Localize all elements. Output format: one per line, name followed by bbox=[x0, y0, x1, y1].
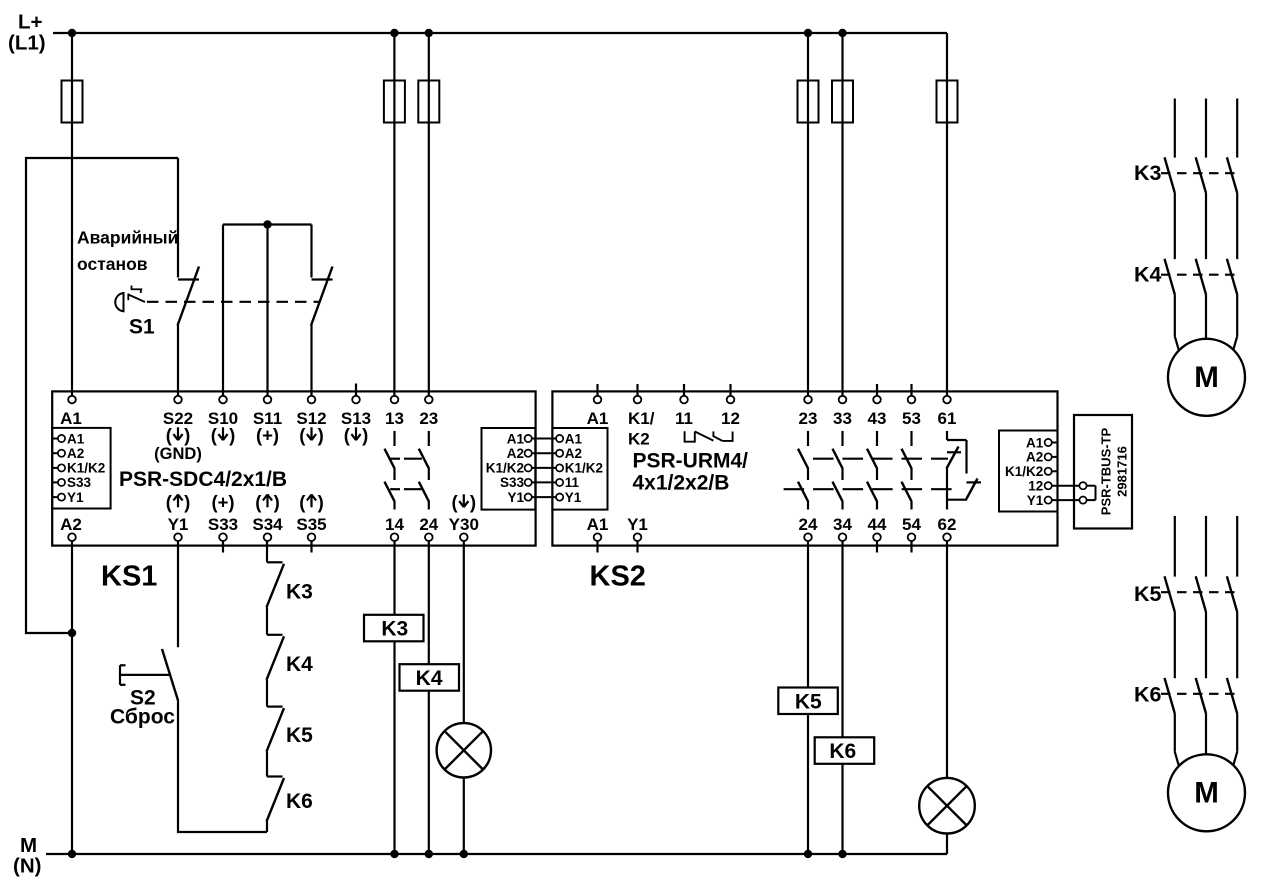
svg-text:44: 44 bbox=[868, 515, 887, 534]
svg-text:A2: A2 bbox=[67, 446, 84, 461]
svg-text:Y1: Y1 bbox=[627, 515, 648, 534]
svg-text:K5: K5 bbox=[1134, 582, 1162, 606]
svg-text:K1/K2: K1/K2 bbox=[1005, 464, 1043, 479]
svg-text:S35: S35 bbox=[296, 515, 326, 534]
svg-text:K5: K5 bbox=[795, 690, 822, 713]
svg-text:(: ( bbox=[166, 425, 173, 446]
svg-text:K3: K3 bbox=[381, 618, 408, 641]
svg-text:KS1: KS1 bbox=[101, 561, 157, 593]
svg-text:): ) bbox=[229, 425, 235, 446]
svg-text:(: ( bbox=[299, 492, 306, 513]
svg-text:(: ( bbox=[452, 492, 459, 513]
svg-text:Y1: Y1 bbox=[1027, 493, 1044, 508]
svg-text:): ) bbox=[470, 492, 476, 513]
svg-text:14: 14 bbox=[385, 515, 404, 534]
svg-text:S33: S33 bbox=[208, 515, 238, 534]
svg-text:PSR-SDC4/2x1/B: PSR-SDC4/2x1/B bbox=[119, 468, 287, 491]
svg-text:(GND): (GND) bbox=[154, 445, 202, 463]
svg-text:K1/K2: K1/K2 bbox=[67, 461, 105, 476]
svg-text:): ) bbox=[184, 425, 190, 446]
svg-text:61: 61 bbox=[938, 409, 957, 428]
svg-text:K1/K2: K1/K2 bbox=[565, 461, 603, 476]
svg-text:): ) bbox=[318, 425, 324, 446]
svg-text:Y1: Y1 bbox=[67, 490, 84, 505]
svg-text:A1: A1 bbox=[1026, 435, 1044, 450]
svg-text:K1/: K1/ bbox=[628, 409, 655, 428]
svg-text:L+: L+ bbox=[18, 11, 43, 34]
svg-text:A1: A1 bbox=[60, 409, 82, 428]
svg-text:A2: A2 bbox=[507, 446, 524, 461]
svg-text:24: 24 bbox=[419, 515, 438, 534]
svg-text:Y30: Y30 bbox=[449, 515, 479, 534]
svg-text:S34: S34 bbox=[252, 515, 283, 534]
svg-text:K6: K6 bbox=[1134, 683, 1162, 707]
svg-text:M: M bbox=[1194, 776, 1219, 809]
svg-text:(: ( bbox=[255, 492, 262, 513]
svg-text:M: M bbox=[1194, 361, 1219, 394]
svg-text:Аварийный: Аварийный bbox=[77, 228, 178, 248]
svg-text:(N): (N) bbox=[13, 855, 41, 878]
svg-text:54: 54 bbox=[902, 515, 921, 534]
svg-text:K5: K5 bbox=[286, 724, 313, 747]
svg-text:A1: A1 bbox=[67, 431, 85, 446]
svg-text:(+): (+) bbox=[211, 492, 234, 513]
svg-text:33: 33 bbox=[833, 409, 852, 428]
svg-text:(L1): (L1) bbox=[8, 32, 46, 55]
svg-text:Y1: Y1 bbox=[168, 515, 189, 534]
svg-text:(: ( bbox=[344, 425, 351, 446]
svg-text:13: 13 bbox=[385, 409, 404, 428]
svg-text:K4: K4 bbox=[416, 667, 443, 690]
svg-text:24: 24 bbox=[799, 515, 818, 534]
svg-text:K4: K4 bbox=[286, 653, 313, 676]
svg-text:2981716: 2981716 bbox=[1115, 446, 1130, 497]
svg-text:12: 12 bbox=[721, 409, 740, 428]
svg-text:A1: A1 bbox=[507, 431, 525, 446]
svg-text:11: 11 bbox=[565, 475, 580, 490]
svg-text:Сброс: Сброс bbox=[110, 706, 175, 729]
svg-text:): ) bbox=[274, 492, 280, 513]
svg-text:23: 23 bbox=[799, 409, 818, 428]
svg-text:S33: S33 bbox=[500, 475, 525, 490]
svg-text:Y1: Y1 bbox=[565, 490, 582, 505]
svg-text:53: 53 bbox=[902, 409, 921, 428]
svg-text:4x1/2x2/B: 4x1/2x2/B bbox=[633, 472, 730, 495]
svg-text:43: 43 bbox=[868, 409, 887, 428]
svg-text:A1: A1 bbox=[565, 431, 583, 446]
svg-text:K3: K3 bbox=[1134, 161, 1162, 185]
svg-text:A2: A2 bbox=[565, 446, 582, 461]
svg-text:A1: A1 bbox=[587, 515, 609, 534]
svg-text:S33: S33 bbox=[67, 475, 92, 490]
svg-text:A2: A2 bbox=[1026, 450, 1043, 465]
svg-text:K6: K6 bbox=[286, 790, 313, 813]
svg-text:K1/K2: K1/K2 bbox=[486, 461, 524, 476]
svg-text:12: 12 bbox=[1028, 479, 1043, 494]
svg-text:K3: K3 bbox=[286, 581, 313, 604]
svg-text:): ) bbox=[362, 425, 368, 446]
svg-text:A2: A2 bbox=[60, 515, 82, 534]
svg-text:PSR-URM4/: PSR-URM4/ bbox=[633, 450, 749, 473]
svg-text:34: 34 bbox=[833, 515, 852, 534]
svg-text:Y1: Y1 bbox=[507, 490, 524, 505]
svg-text:(+): (+) bbox=[256, 425, 279, 446]
svg-text:(: ( bbox=[211, 425, 218, 446]
svg-text:(: ( bbox=[299, 425, 306, 446]
svg-text:23: 23 bbox=[419, 409, 438, 428]
svg-text:S1: S1 bbox=[129, 316, 155, 339]
svg-text:останов: останов bbox=[77, 254, 148, 274]
svg-text:KS2: KS2 bbox=[590, 561, 646, 593]
svg-text:A1: A1 bbox=[587, 409, 609, 428]
svg-text:62: 62 bbox=[938, 515, 957, 534]
svg-text:): ) bbox=[318, 492, 324, 513]
svg-text:): ) bbox=[184, 492, 190, 513]
svg-text:K2: K2 bbox=[628, 429, 650, 448]
svg-text:K6: K6 bbox=[829, 740, 856, 763]
svg-text:PSR-TBUS-TP: PSR-TBUS-TP bbox=[1099, 427, 1114, 515]
svg-text:K4: K4 bbox=[1134, 263, 1162, 287]
svg-text:11: 11 bbox=[675, 409, 693, 428]
svg-text:(: ( bbox=[166, 492, 173, 513]
